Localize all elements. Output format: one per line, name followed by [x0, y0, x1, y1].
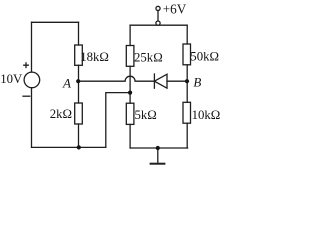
wire 25k top lead — [129, 25, 131, 45]
resistor R2 2k body — [75, 103, 83, 124]
wire 50k bottom to node B to 10k top — [186, 65, 188, 103]
svg-text:A: A — [62, 76, 71, 91]
wire +6V rail — [130, 24, 187, 26]
resistor R4 5k body — [126, 103, 134, 124]
junction dot ground — [156, 146, 160, 150]
diode D1 cathode bar — [153, 74, 155, 88]
wire diode to node B — [167, 80, 187, 82]
junction dot 2k bottom — [77, 145, 81, 149]
wire 18k column top lead — [78, 22, 80, 45]
wire bottom-right rail — [130, 147, 188, 149]
resistor R1 18k body — [75, 45, 83, 65]
ground stub — [157, 148, 159, 163]
svg-text:5kΩ: 5kΩ — [135, 108, 157, 122]
wire +6V terminal lead — [157, 11, 159, 21]
label - polarity — [23, 95, 30, 97]
node B junction dot — [185, 79, 189, 83]
svg-text:50kΩ: 50kΩ — [190, 49, 219, 63]
resistor R3 25k body — [126, 46, 134, 67]
node A junction dot — [76, 79, 80, 83]
wire bottom-left rail — [32, 146, 106, 148]
label + polarity — [24, 63, 29, 68]
wire 10k bottom lead — [186, 123, 188, 148]
wire 50k top lead — [186, 25, 188, 44]
wire node A horizontal with crossover hump — [79, 76, 155, 81]
resistor R6 10k body — [183, 102, 191, 123]
svg-text:2kΩ: 2kΩ — [50, 107, 72, 121]
source V1 10V circle — [24, 72, 40, 88]
wire left column upper (source V1 top lead) — [31, 22, 33, 72]
wire L-link from mid junction down to left rail — [106, 93, 130, 148]
svg-text:10V: 10V — [0, 72, 23, 86]
svg-text:10kΩ: 10kΩ — [192, 108, 221, 122]
junction dot 25k/5k/link — [128, 91, 132, 95]
wire 25k bottom through junction to 5k top — [129, 66, 131, 103]
svg-text:+6V: +6V — [163, 2, 187, 17]
wire top-left rail — [32, 21, 79, 23]
wire left column lower (source V1 bottom lead) — [31, 88, 33, 148]
wire 2k bottom lead — [78, 124, 80, 147]
svg-text:18kΩ: 18kΩ — [80, 50, 109, 64]
svg-text:B: B — [193, 75, 201, 90]
junction circle on +6V rail — [156, 21, 160, 25]
terminal +6V circle — [156, 6, 160, 10]
ground bar — [151, 163, 165, 165]
wire 5k bottom lead — [129, 124, 131, 148]
wire 18k bottom to node A to 2k top — [78, 65, 80, 103]
resistor R5 50k body — [183, 44, 191, 65]
diode D1 triangle — [154, 74, 167, 88]
svg-text:25kΩ: 25kΩ — [134, 51, 163, 65]
